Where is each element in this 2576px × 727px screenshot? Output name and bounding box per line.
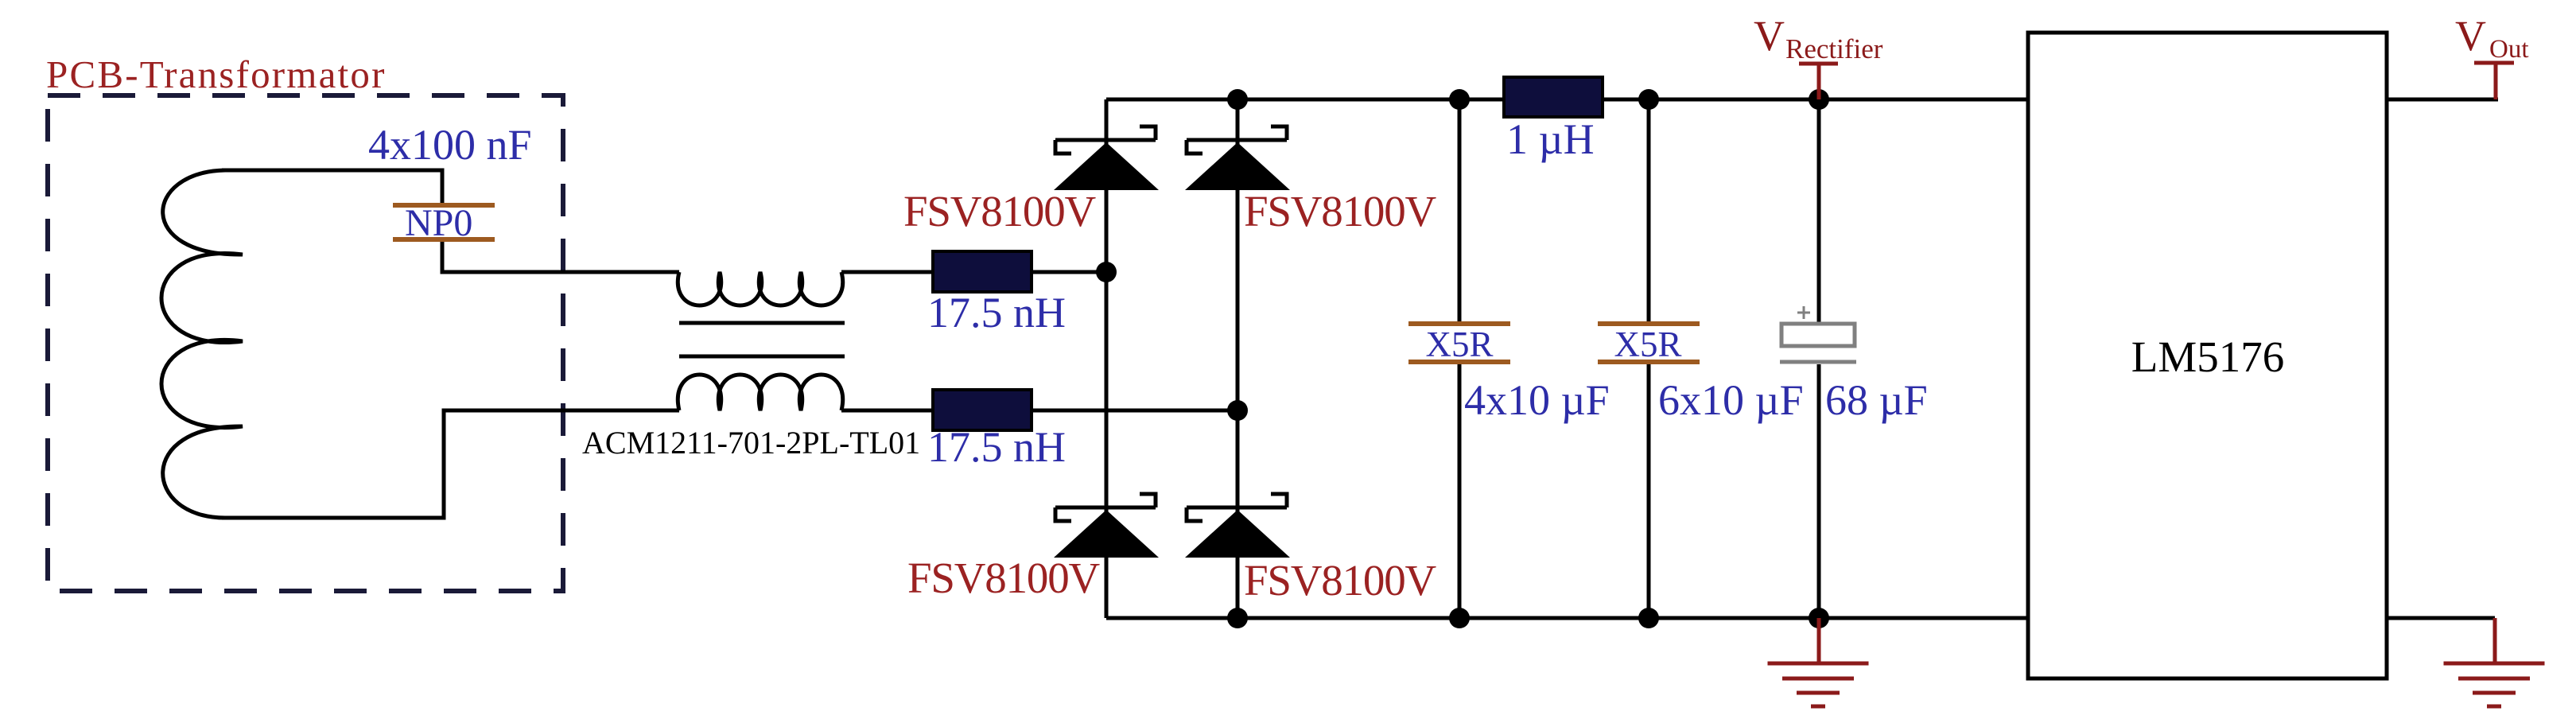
svg-text:1 µH: 1 µH	[1506, 115, 1595, 163]
svg-text:17.5 nH: 17.5 nH	[927, 423, 1066, 471]
svg-text:X5R: X5R	[1425, 325, 1493, 364]
svg-text:4x100 nF: 4x100 nF	[368, 121, 532, 169]
svg-text:FSV8100V: FSV8100V	[1244, 556, 1436, 605]
svg-text:V: V	[2455, 12, 2486, 60]
svg-text:17.5 nH: 17.5 nH	[927, 289, 1066, 336]
svg-text:X5R: X5R	[1614, 325, 1681, 364]
svg-text:Out: Out	[2489, 35, 2529, 64]
svg-text:ACM1211-701-2PL-TL01: ACM1211-701-2PL-TL01	[582, 425, 920, 461]
svg-text:68 µF: 68 µF	[1825, 376, 1928, 424]
svg-text:Rectifier: Rectifier	[1785, 33, 1883, 64]
svg-text:FSV8100V: FSV8100V	[907, 554, 1100, 602]
svg-text:LM5176: LM5176	[2131, 332, 2285, 381]
svg-text:NP0: NP0	[405, 202, 472, 244]
svg-text:V: V	[1754, 12, 1785, 60]
svg-text:FSV8100V: FSV8100V	[1244, 187, 1436, 235]
svg-text:6x10 µF: 6x10 µF	[1658, 376, 1804, 424]
svg-text:FSV8100V: FSV8100V	[903, 187, 1096, 235]
svg-text:PCB-Transformator: PCB-Transformator	[46, 52, 387, 96]
svg-text:4x10 µF: 4x10 µF	[1464, 376, 1610, 424]
